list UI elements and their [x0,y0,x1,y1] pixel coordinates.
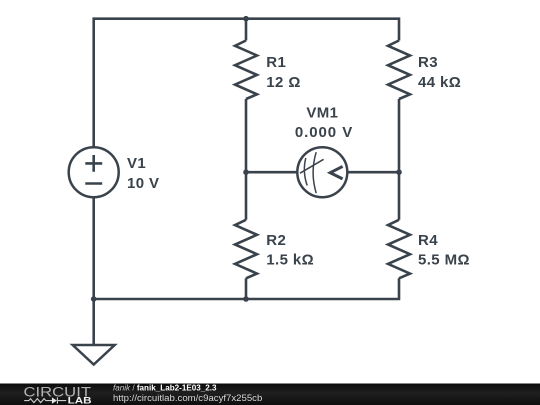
label R2 value [266,232,314,268]
wire VM1 right lead [347,171,399,174]
wire R3 bottom lead [398,99,401,172]
node junction bottom left [91,296,97,302]
svg-text:LAB: LAB [68,396,93,405]
svg-text:fanik / fanik_Lab2-1E03_2.3: fanik / fanik_Lab2-1E03_2.3 [113,383,217,392]
svg-text:12 Ω: 12 Ω [266,74,300,91]
wire R4 top lead [398,172,401,220]
wire ground lead [92,299,95,345]
wire top rail left (V1 top lead up and across to R1 node) [94,19,246,148]
svg-text:R3: R3 [418,54,438,71]
label VM1 reading [295,105,353,141]
label V1 value [127,155,159,192]
svg-text:R2: R2 [266,232,286,249]
label R1 value [266,54,300,91]
svg-text:5.5 MΩ: 5.5 MΩ [418,251,470,268]
svg-text:V1: V1 [127,155,146,172]
footer bar [0,384,540,405]
wire VM1 left lead [246,171,298,174]
voltage source V1 [69,147,119,197]
node junction bottom R2 [243,296,249,302]
wire R2 top lead [245,172,248,220]
node junction mid right [396,169,402,175]
resistor R1 [235,41,257,99]
svg-text:R4: R4 [418,232,438,249]
wire R2 bottom lead [245,278,248,299]
resistor R2 [235,220,257,279]
svg-text:0.000 V: 0.000 V [295,124,353,141]
wire R1 bottom lead [245,99,248,172]
node junction mid left [243,169,249,175]
wire top rail right (R1 node to R3 top lead) [246,19,399,41]
CircuitLab logo resistor-diode line [24,397,66,403]
wire V1 bottom lead [92,197,95,300]
svg-text:10 V: 10 V [127,175,159,192]
svg-text:1.5 kΩ: 1.5 kΩ [266,251,314,268]
svg-text:R1: R1 [266,54,286,71]
node junction top rail R1 [243,16,249,22]
resistor R3 [388,41,410,99]
svg-text:VM1: VM1 [306,105,338,122]
label R3 value [418,54,461,91]
svg-text:44 kΩ: 44 kΩ [418,74,461,91]
wire R1 top lead [245,19,248,41]
voltmeter VM1 [297,147,347,197]
ground [73,345,115,365]
resistor R4 [388,220,410,279]
svg-text:http://circuitlab.com/c9acyf7x: http://circuitlab.com/c9acyf7x255cb [113,393,262,404]
wire bottom rail (across to R4 bottom lead) [94,278,399,299]
label R4 value [418,232,470,268]
